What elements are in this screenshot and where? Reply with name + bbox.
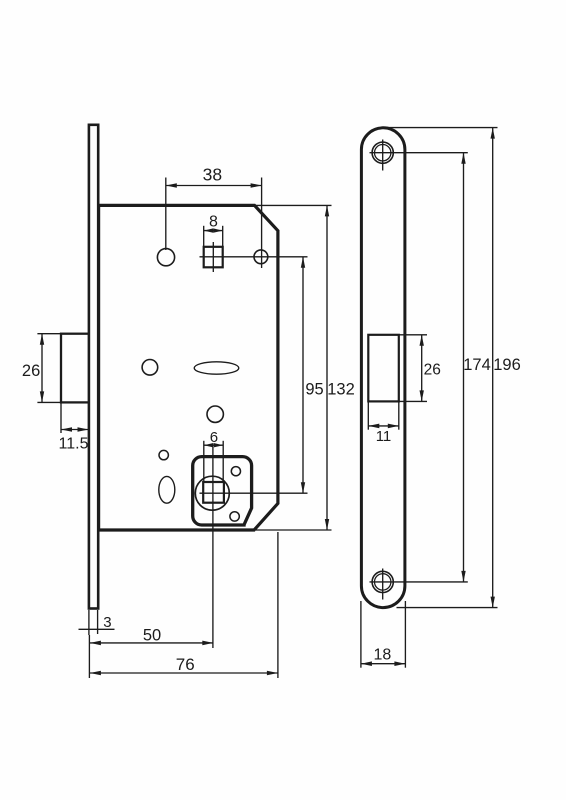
follower square	[203, 482, 224, 503]
bottom screw hole vertical centerline	[382, 569, 384, 600]
faceplate front outline	[361, 128, 405, 608]
plate small circle bottom	[230, 512, 239, 521]
dimension 11 extension lines	[367, 401, 369, 429]
svg-text:132: 132	[327, 381, 355, 399]
dimension 11 line	[368, 425, 399, 427]
horizontal ellipse	[194, 362, 239, 374]
strike box opening	[368, 335, 399, 402]
dimension 132 top extension	[255, 204, 332, 206]
dimension 18 line	[361, 663, 406, 665]
dimension 76 right extension	[277, 532, 279, 678]
faceplate side bar	[89, 125, 98, 609]
dimension 6 line	[204, 444, 223, 446]
bottom screw hole inner	[375, 574, 391, 590]
svg-text:6: 6	[210, 429, 218, 446]
svg-text:76: 76	[176, 655, 195, 674]
bottom screw hole horizontal centerline / 174 bottom extension	[370, 581, 468, 583]
top screw hole horizontal centerline / 174 top extension	[370, 152, 468, 154]
dimension 3 extension lines	[88, 610, 90, 635]
dimension 26 left line	[41, 334, 43, 403]
dimension 26 left extension lines	[37, 333, 61, 335]
dimension 50 left extension	[88, 635, 90, 648]
dimension 38 extension right	[261, 178, 263, 269]
svg-text:11: 11	[376, 428, 392, 445]
latch bolt	[61, 334, 89, 403]
dimension 26 right line	[421, 335, 423, 402]
dimension 8 extension lines	[203, 226, 205, 247]
dimension 8 line	[204, 230, 223, 232]
svg-text:11.5: 11.5	[59, 435, 89, 452]
top square vertical centerline	[212, 242, 214, 272]
dimension 196 line	[492, 128, 494, 608]
follower horizontal centerline / 95 bottom extension	[200, 492, 308, 494]
dimension 26 right extension lines	[399, 334, 427, 336]
svg-text:26: 26	[424, 362, 441, 379]
dimension 196 top extension	[386, 127, 498, 129]
follower circle	[195, 476, 229, 510]
svg-text:50: 50	[143, 626, 161, 644]
dimension 50 line	[90, 642, 213, 644]
dimension 38 extension left	[165, 178, 167, 251]
dimension 18 extension lines	[360, 601, 362, 668]
dimension 196 bottom extension	[397, 607, 498, 609]
dimension 95 line	[302, 257, 304, 493]
svg-text:8: 8	[209, 214, 218, 231]
plate small circle top	[231, 467, 240, 476]
bottom screw hole outer	[372, 571, 393, 592]
vertical ellipse	[159, 476, 175, 503]
svg-text:3: 3	[103, 614, 111, 631]
top screw hole vertical centerline	[382, 140, 384, 171]
circle C mid left	[142, 360, 158, 376]
dimension 6 extension lines	[203, 441, 205, 482]
svg-text:196: 196	[493, 356, 521, 374]
svg-text:174: 174	[463, 356, 491, 374]
screw hole left	[157, 249, 174, 266]
dimension 3 line	[79, 628, 115, 630]
top screw hole inner	[375, 145, 391, 161]
svg-text:26: 26	[22, 362, 40, 380]
small circle E	[159, 450, 168, 459]
follower plate	[193, 457, 252, 525]
dimension 174 line	[463, 153, 465, 582]
svg-text:95: 95	[305, 381, 323, 399]
dimension 132 bottom extension	[256, 529, 332, 531]
top screw hole outer	[372, 142, 393, 163]
dimension 11.5 line	[61, 429, 89, 431]
dimension 11.5 extension line	[60, 402, 62, 433]
dimension 76 left extension	[88, 648, 90, 678]
screw hole right	[254, 250, 268, 264]
top square horizontal centerline / 95 top extension	[200, 256, 308, 258]
dimension 38 line	[166, 185, 262, 187]
svg-text:18: 18	[374, 647, 392, 664]
svg-text:38: 38	[203, 164, 222, 184]
top square hole	[204, 247, 223, 267]
circle D center	[207, 406, 223, 422]
lock body outline	[99, 205, 278, 530]
dimension 132 line	[326, 205, 328, 530]
dimension 76 line	[90, 672, 278, 674]
follower vertical centerline (extends to 50 dim)	[212, 447, 214, 648]
